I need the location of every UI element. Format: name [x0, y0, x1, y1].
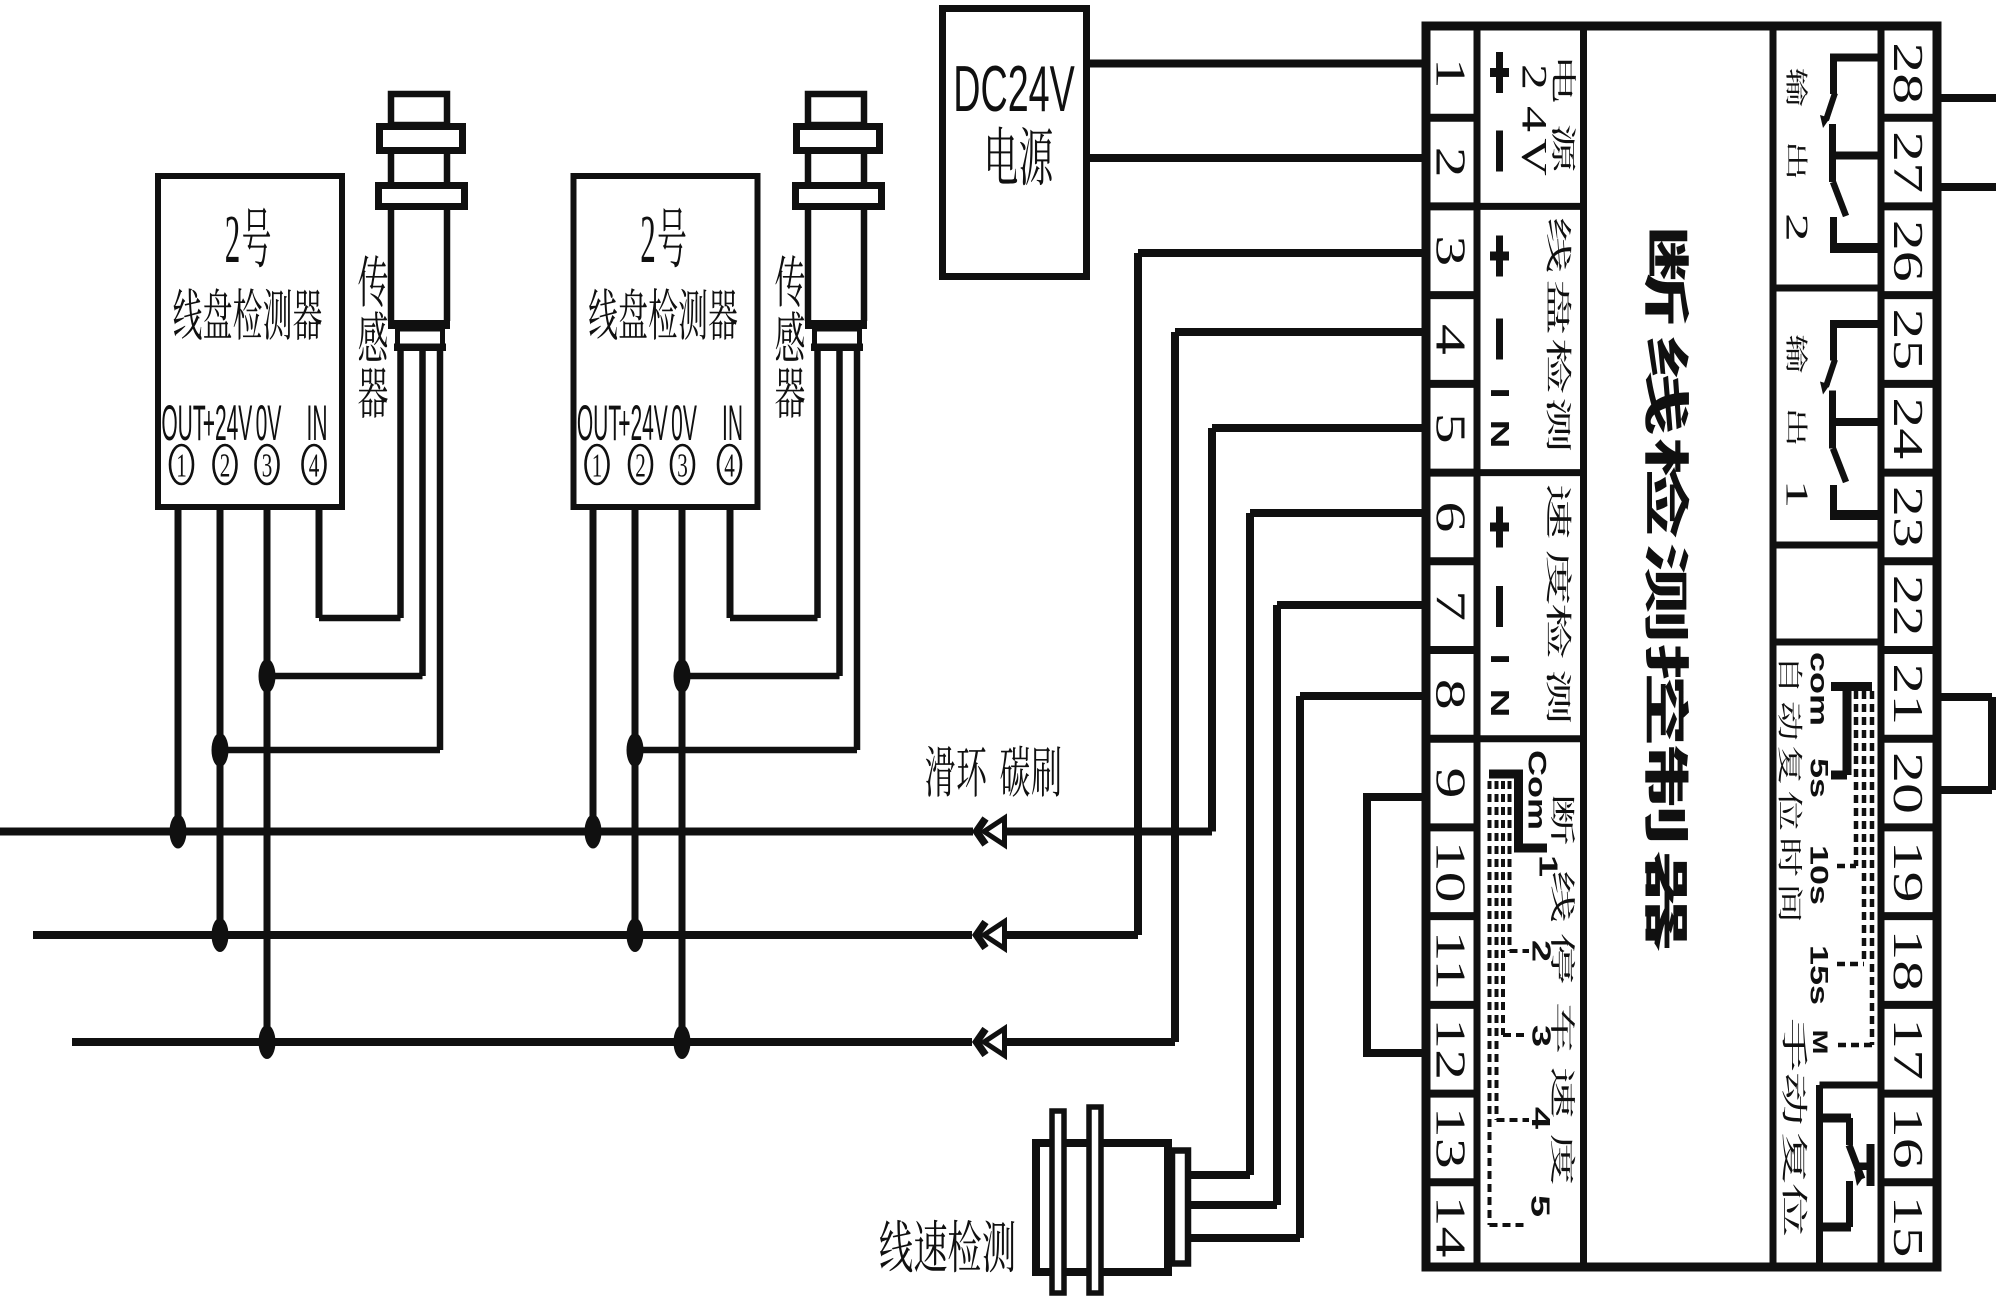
label 线盘检测器 (U2): [589, 288, 737, 340]
push button SB1 lower contact: [1819, 1181, 1851, 1227]
svg-text:2: 2: [220, 448, 231, 485]
junction U1 OUT on L1: [170, 815, 187, 849]
selector position 2: [1526, 940, 1555, 962]
sensor S1 thread bar 2: [379, 186, 465, 207]
pin labels OUT +24V 0V IN (U2): [577, 396, 743, 452]
label 10s: [1805, 845, 1833, 905]
svg-text:18: 18: [1885, 929, 1931, 991]
junction U2 OUT on L1: [585, 815, 602, 849]
terminal 5 number: [1427, 413, 1473, 444]
svg-text:OUT: OUT: [577, 396, 621, 452]
encoder E1 shaft plate 2: [1089, 1107, 1101, 1293]
selector solid link Com-1: [1489, 774, 1547, 848]
label 电源: [1552, 61, 1576, 171]
push button SB1 actuator: [1857, 1144, 1875, 1186]
wire terminal 28 output stub: [1937, 94, 1996, 102]
svg-text:4: 4: [1526, 1107, 1555, 1130]
wire U2 pin2 +24V to line L2: [632, 507, 639, 935]
controller U4 (断线检测控制器) outline: [1426, 26, 1937, 1267]
wire S2 black to U2 IN: [730, 347, 818, 618]
svg-text:26: 26: [1885, 220, 1931, 282]
wire U1 pin2 +24V to line L2: [217, 507, 224, 935]
terminal 27 number: [1885, 131, 1931, 193]
svg-text:6: 6: [1427, 501, 1473, 532]
selector position 4: [1526, 1107, 1555, 1130]
arrow on L3: [977, 1029, 1005, 1056]
wire L1 bus to terminal 5: [1212, 428, 1426, 832]
terminal 10 number: [1427, 841, 1473, 903]
svg-text:2: 2: [1779, 213, 1814, 242]
selector dashed to 2: [1510, 781, 1530, 951]
polarity + (线盘检测): [1490, 236, 1509, 277]
terminal 1 number: [1427, 58, 1473, 89]
wire U1 pin3 0V to line L3: [264, 507, 271, 1042]
svg-text:1: 1: [1427, 58, 1473, 89]
arrow on L1: [977, 818, 1005, 845]
svg-text:4: 4: [1514, 106, 1555, 132]
label Com (断线停车速度): [1523, 750, 1551, 830]
svg-text:V: V: [1514, 138, 1555, 176]
svg-text:12: 12: [1427, 1018, 1473, 1080]
polarity + (速度检测): [1490, 507, 1509, 548]
polarity - (线盘检测): [1496, 319, 1503, 360]
terminal 28 number: [1885, 42, 1931, 104]
push button SB1 blade: [1849, 1145, 1864, 1186]
terminal 24 number: [1885, 397, 1931, 459]
selector position 3: [1526, 1025, 1555, 1047]
terminal 14 number: [1427, 1196, 1473, 1258]
svg-text:1: 1: [592, 448, 603, 485]
svg-text:10s: 10s: [1805, 845, 1833, 905]
sensor S1 flange: [388, 320, 450, 329]
wire U1 pin1 OUT to line L1: [175, 507, 182, 832]
svg-text:13: 13: [1427, 1107, 1473, 1169]
relay contact K2 NO contact: [1830, 217, 1881, 248]
pin number circles 1-4 (U2): [586, 445, 742, 485]
label 滑环 碳刷: [926, 746, 1060, 797]
junction U2 +24V / sensor wire: [627, 733, 644, 767]
svg-text:24: 24: [1885, 397, 1931, 459]
label IN (线盘检测): [1485, 387, 1514, 448]
encoder E1 connector: [1172, 1151, 1188, 1264]
svg-text:8: 8: [1427, 679, 1473, 710]
svg-text:0V: 0V: [256, 396, 282, 452]
relay contact K2 stub to 28: [1830, 54, 1881, 62]
label 2号 (U2): [640, 200, 685, 277]
svg-text:19: 19: [1885, 841, 1931, 903]
label 15s: [1805, 945, 1833, 1005]
sensor S1 body: [391, 125, 447, 321]
jumper terminal 21 to 20 (5s select): [1937, 697, 1992, 790]
svg-text:1: 1: [176, 448, 187, 485]
reset selector dashed to 10s: [1837, 691, 1856, 866]
svg-text:4: 4: [1427, 324, 1473, 355]
selector dashed to 3: [1503, 781, 1529, 1035]
push button sub-box: [1820, 1085, 1882, 1267]
wire terminal 27 output stub: [1937, 183, 1996, 191]
svg-text:7: 7: [1427, 590, 1473, 621]
jumper terminal 9 to terminal 12: [1367, 797, 1426, 1053]
svg-text:23: 23: [1885, 486, 1931, 548]
terminal 21 number: [1885, 663, 1931, 725]
selector dashed to 4: [1497, 781, 1530, 1120]
svg-text:15: 15: [1885, 1196, 1931, 1258]
svg-text:M: M: [1808, 1030, 1831, 1055]
svg-text:3: 3: [262, 448, 273, 485]
terminal 2 number: [1427, 147, 1473, 178]
svg-text:N: N: [1485, 420, 1514, 449]
svg-text:9: 9: [1427, 768, 1473, 799]
svg-text:0V: 0V: [671, 396, 697, 452]
polarity + (电源24V): [1490, 52, 1509, 93]
selector position 5: [1525, 1195, 1554, 1217]
wire L3 bus to terminal 4: [1175, 332, 1426, 1042]
pin labels OUT +24V 0V IN (U1): [161, 396, 327, 452]
svg-text:5s: 5s: [1805, 758, 1833, 798]
junction U2 +24V on L2: [627, 918, 644, 952]
svg-text:DC24V: DC24V: [953, 54, 1075, 126]
label 5s: [1805, 758, 1833, 798]
svg-text:I: I: [1485, 387, 1514, 398]
terminal 8 number: [1427, 679, 1473, 710]
label 速度检测: [1547, 486, 1572, 723]
svg-text:N: N: [1485, 689, 1514, 718]
sensor S2 thread bar 2: [796, 186, 882, 207]
label IN (速度检测): [1485, 653, 1514, 717]
terminal 19 number: [1885, 841, 1931, 903]
terminal 12 number: [1427, 1018, 1473, 1080]
svg-text:2: 2: [1526, 940, 1555, 962]
terminal 22 number: [1885, 575, 1931, 637]
terminal 17 number: [1885, 1018, 1931, 1080]
right terminal strip dividers: [1881, 118, 1937, 1183]
label 24V: [1514, 64, 1555, 176]
terminal 23 number: [1885, 486, 1931, 548]
svg-text:2: 2: [635, 448, 646, 485]
label DC24V (U3): [953, 54, 1075, 126]
svg-text:17: 17: [1885, 1018, 1931, 1080]
junction U1 0V / sensor wire: [259, 659, 276, 693]
sensor S1 connector: [394, 329, 446, 351]
left terminal strip dividers: [1426, 118, 1477, 1183]
relay contact K2 common: [1830, 124, 1881, 182]
label 断线停车速度: [1551, 796, 1575, 1183]
wire S2 brown to +24V net: [635, 347, 857, 750]
relay contact K1 upper: [1820, 324, 1835, 395]
svg-text:14: 14: [1427, 1196, 1473, 1258]
svg-text:OUT: OUT: [161, 396, 205, 452]
svg-text:27: 27: [1885, 131, 1931, 193]
svg-text:3: 3: [677, 448, 688, 485]
controller internal column line a: [1474, 26, 1481, 1267]
wire S1 brown to +24V net: [220, 347, 440, 750]
reset selector dashed to M: [1838, 691, 1872, 1045]
wire encoder B to terminal 7: [1277, 605, 1426, 1205]
svg-text:Com: Com: [1523, 750, 1551, 830]
svg-text:15s: 15s: [1805, 945, 1833, 1005]
arrow on L2: [977, 922, 1005, 949]
relay contact K2 lower arm: [1833, 182, 1846, 216]
label 传感器 (S1): [358, 255, 387, 418]
svg-text:IN: IN: [722, 396, 743, 452]
sensor S2 (proximity) cap: [808, 94, 864, 125]
relay contact K1 NO contact: [1830, 485, 1881, 515]
wire U3 + to terminal 1: [1087, 60, 1426, 68]
svg-text:I: I: [1485, 653, 1514, 664]
reset selector solid link com-5s: [1831, 687, 1872, 776]
wire L2 bus to terminal 3: [1138, 253, 1426, 935]
svg-text:4: 4: [309, 448, 320, 485]
controller internal column line c: [1770, 26, 1777, 1267]
wire encoder Z to terminal 8: [1300, 696, 1426, 1238]
sensor S2 thread bar 1: [797, 127, 880, 151]
label 输出2: [1779, 68, 1814, 242]
terminal 3 number: [1427, 235, 1473, 266]
terminal 26 number: [1885, 220, 1931, 282]
controller internal column line b: [1580, 26, 1587, 1267]
terminal 11 number: [1427, 931, 1473, 991]
polarity - (电源24V): [1496, 131, 1503, 172]
polarity - (速度检测): [1496, 586, 1503, 627]
svg-text:5: 5: [1427, 413, 1473, 444]
svg-text:16: 16: [1885, 1107, 1931, 1169]
relay contact K1 stub to 25: [1830, 320, 1881, 328]
wire S1 blue to 0V net: [267, 347, 423, 676]
controller internal column line d: [1878, 26, 1885, 1267]
svg-text:com: com: [1805, 652, 1833, 726]
terminal 15 number: [1885, 1196, 1931, 1258]
sensor S2 flange: [805, 320, 867, 329]
svg-text:21: 21: [1885, 663, 1931, 725]
wire encoder A: [1188, 1171, 1250, 1179]
svg-text:IN: IN: [307, 396, 328, 452]
wire encoder B: [1188, 1201, 1277, 1209]
wire U1 pin4 IN drop: [316, 507, 323, 618]
wire S2 blue to 0V net: [682, 347, 840, 676]
label 传感器 (S2): [775, 255, 804, 418]
svg-text:+24V: +24V: [203, 396, 253, 452]
svg-text:11: 11: [1427, 931, 1473, 991]
sensor S1 (proximity) cap: [391, 94, 447, 125]
reset selector dashed to 15s: [1837, 691, 1864, 964]
label 手动复位: [1782, 1020, 1807, 1236]
label com (自动复位时间): [1805, 652, 1833, 726]
relay contact K1 common: [1830, 391, 1881, 449]
right label column dividers: [1773, 288, 1881, 642]
terminal 13 number: [1427, 1107, 1473, 1169]
svg-text:3: 3: [1427, 235, 1473, 266]
detector U1 (2号 线盘检测器) box: [158, 176, 342, 507]
terminal 20 number: [1885, 752, 1931, 814]
selector dashed to 5: [1490, 781, 1527, 1225]
junction U1 0V on L3: [259, 1025, 276, 1059]
power supply U3 (DC24V 电源) box: [943, 9, 1087, 277]
sensor S2 connector: [811, 329, 863, 351]
label 电源 (U3): [988, 126, 1052, 185]
terminal 9 number: [1427, 768, 1473, 799]
wire U3 - to terminal 2: [1087, 154, 1426, 162]
svg-text:+24V: +24V: [618, 396, 668, 452]
title 断线检测控制器 (U4): [1645, 231, 1689, 952]
wire S1 black to U1 IN: [319, 347, 401, 618]
encoder E1 shaft plate 1: [1052, 1111, 1064, 1293]
slip ring line L3 (node 0V bus): [72, 1038, 1175, 1046]
label 线盘检测: [1547, 219, 1572, 450]
junction U2 0V on L3: [674, 1025, 691, 1059]
terminal 6 number: [1427, 501, 1473, 532]
slip ring line L1 (node OUT bus): [0, 828, 1212, 836]
wire U2 pin3 0V to line L3: [679, 507, 686, 1042]
svg-text:22: 22: [1885, 575, 1931, 637]
svg-text:25: 25: [1885, 308, 1931, 370]
relay contact K1 lower arm: [1833, 449, 1846, 483]
terminal 25 number: [1885, 308, 1931, 370]
svg-text:1: 1: [1779, 479, 1814, 508]
label 线速检测 (E1): [880, 1220, 1014, 1273]
left label column dividers: [1477, 206, 1584, 738]
selector position 1: [1533, 855, 1562, 877]
label 自动复位时间: [1778, 663, 1802, 921]
junction U1 +24V / sensor wire: [212, 733, 229, 767]
terminal 4 number: [1427, 324, 1473, 355]
label 输出1: [1779, 335, 1814, 509]
push button SB1 upper contact: [1819, 1118, 1851, 1145]
svg-text:2: 2: [1514, 64, 1555, 90]
svg-text:28: 28: [1885, 42, 1931, 104]
svg-text:5: 5: [1525, 1195, 1554, 1217]
encoder E1 (线速检测) body: [1036, 1143, 1168, 1272]
relay contact K2 upper: [1820, 58, 1835, 129]
sensor S2 body: [808, 125, 864, 321]
svg-text:2: 2: [640, 200, 656, 277]
svg-text:2: 2: [225, 200, 241, 277]
junction U1 +24V on L2: [212, 918, 229, 952]
sensor S1 thread bar 1: [380, 127, 463, 151]
wire U2 pin1 OUT to line L1: [590, 507, 597, 832]
junction U2 0V / sensor wire: [674, 659, 691, 693]
label 线盘检测器 (U1): [174, 288, 322, 340]
pin number circles 1-4 (U1): [170, 445, 326, 485]
wire U2 pin4 IN drop: [727, 507, 734, 618]
svg-text:4: 4: [724, 448, 735, 485]
svg-text:20: 20: [1885, 752, 1931, 814]
wire encoder A to terminal 6: [1250, 513, 1426, 1175]
terminal 7 number: [1427, 590, 1473, 621]
wire encoder Z: [1188, 1234, 1300, 1242]
svg-text:2: 2: [1427, 147, 1473, 178]
svg-text:10: 10: [1427, 841, 1473, 903]
label 2号 (U1): [225, 200, 270, 277]
detector U2 (2号 线盘检测器) box: [574, 176, 758, 507]
label M: [1808, 1030, 1831, 1055]
svg-text:1: 1: [1533, 855, 1562, 877]
terminal 18 number: [1885, 929, 1931, 991]
terminal 16 number: [1885, 1107, 1931, 1169]
slip ring line L2 (node +24V bus): [33, 931, 1138, 939]
